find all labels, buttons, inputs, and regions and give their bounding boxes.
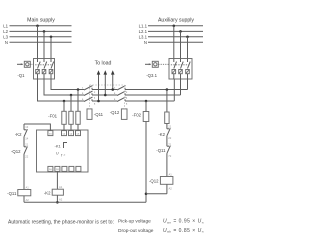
fuse F01 pole3 <box>76 111 80 124</box>
node L1 tap <box>36 25 39 28</box>
wire P3 middle segment <box>92 100 117 102</box>
contact K2 NC (right) <box>167 128 170 136</box>
wire down to coil Q11 <box>23 154 25 190</box>
contact Q12 NC (left) <box>24 146 27 154</box>
svg-text:A1: A1 <box>26 185 30 189</box>
monitor bottom terminal 1 <box>48 166 53 171</box>
svg-text:Drop-out voltage: Drop-out voltage <box>118 228 154 234</box>
rotary handle of Q3.1 <box>145 61 169 67</box>
wire F01-3 feeder <box>77 90 79 132</box>
svg-text:N: N <box>144 40 147 45</box>
svg-text:21: 21 <box>168 125 171 129</box>
circuit-breaker Q1 <box>34 59 55 80</box>
wire L3.1 drop to Q3.1 <box>187 37 189 59</box>
wire down to Q12 coil <box>166 153 168 176</box>
node L2 tap <box>43 30 46 33</box>
svg-text:-Q12: -Q12 <box>11 149 21 154</box>
svg-text:14: 14 <box>25 137 28 141</box>
contactor Q11 main contacts <box>84 86 93 102</box>
monitor top terminal 4 <box>76 131 81 136</box>
wire right branch upper <box>166 90 168 113</box>
wire Q11 coil to rail <box>23 196 25 203</box>
svg-text:To load: To load <box>95 61 112 67</box>
svg-text:-Q11: -Q11 <box>7 191 17 196</box>
svg-text:22: 22 <box>168 136 171 140</box>
svg-text:-F02: -F02 <box>132 113 141 118</box>
monitor bottom terminal 5 <box>76 166 81 171</box>
coil Q11 <box>18 190 31 196</box>
svg-text:Main supply: Main supply <box>27 18 55 24</box>
node L1.1 tap <box>173 25 176 28</box>
node L3.1 tap <box>186 36 189 39</box>
fuse F01 pole2 <box>69 111 73 124</box>
node L2.1 tap <box>179 30 182 33</box>
wire Q1 pole2 down-bend <box>44 79 84 95</box>
svg-text:-Q12: -Q12 <box>149 179 159 184</box>
load arrow 2 <box>104 70 108 95</box>
wire K2 coil to rail <box>56 195 58 202</box>
wire P1 middle segment <box>92 89 117 91</box>
wire fuse to contact <box>166 124 168 129</box>
svg-text:Automatic resetting, the phase: Automatic resetting, the phase-monitor i… <box>8 220 114 226</box>
phase-monitor K1 box <box>37 130 89 172</box>
node load1 on P3 <box>97 100 100 103</box>
interlock latch box Q11 <box>87 109 92 120</box>
svg-text:L2: L2 <box>3 29 8 34</box>
wire L2.1 (aux) <box>148 30 203 32</box>
wire L2 drop to Q1 <box>43 31 45 58</box>
wire P2 right segment <box>125 94 181 96</box>
wire bottom rail <box>24 201 146 203</box>
wire L1.1 drop to Q3.1 <box>173 26 175 59</box>
svg-text:21: 21 <box>25 143 28 147</box>
svg-text:L3: L3 <box>3 34 8 39</box>
svg-text:<: < <box>64 153 66 157</box>
wire Q3.1 pole3 bend-up <box>173 79 175 101</box>
terminal digits top row <box>49 133 80 135</box>
svg-text:72: 72 <box>168 154 171 158</box>
wire L2 (main) <box>10 30 72 32</box>
rotary handle of Q1 <box>17 61 34 67</box>
svg-text:13: 13 <box>25 125 28 129</box>
wire monitor output down <box>56 171 58 189</box>
contact K2 NC (left) <box>24 129 27 137</box>
load arrow 3 <box>111 70 115 89</box>
mechanical interlock dashed link <box>90 84 125 86</box>
svg-text:L3.1: L3.1 <box>139 34 148 39</box>
wire F01-2 feeder <box>70 95 72 131</box>
wire Q1 pole1 down-bend <box>51 79 84 90</box>
wire L3 drop to Q1 <box>50 37 52 59</box>
terminal digits bottom row <box>49 169 59 171</box>
coil K2 <box>52 189 63 195</box>
wire L3.1 (aux) <box>148 36 203 38</box>
svg-text:L2.1: L2.1 <box>139 29 148 34</box>
svg-text:L1.1: L1.1 <box>139 23 148 28</box>
monitor bottom terminal 2 <box>55 166 60 171</box>
svg-text:-K2: -K2 <box>158 132 165 137</box>
wire F02 feeder <box>145 101 147 112</box>
node load3 on P1 <box>111 88 114 91</box>
monitor function symbol <box>56 143 67 158</box>
svg-text:Uab = 0.85 × Un: Uab = 0.85 × Un <box>163 228 204 234</box>
monitor top terminal 1 <box>48 131 53 136</box>
contactor Q12 main contacts <box>117 86 126 102</box>
wire Q12 coil to return <box>166 184 168 194</box>
wire L1 drop to Q1 <box>37 26 39 59</box>
node K2 on rail <box>56 201 59 204</box>
load arrow 1 <box>97 70 101 101</box>
svg-text:-K2: -K2 <box>15 132 22 137</box>
wire left control branch upper <box>23 124 25 130</box>
pin numbers Q11 contacts <box>82 88 96 106</box>
svg-text:-Q12: -Q12 <box>110 110 120 115</box>
wire Q3.1 pole2 bend-up <box>180 79 182 95</box>
svg-text:Pick-up voltage: Pick-up voltage <box>118 219 151 225</box>
node return junction <box>145 193 148 196</box>
node right branch tap <box>166 88 169 91</box>
svg-text:A1: A1 <box>169 173 173 177</box>
wire F02 return line <box>145 122 147 203</box>
node load2 on P2 <box>104 94 107 97</box>
monitor top terminal 2 <box>62 131 67 136</box>
svg-text:U: U <box>56 152 59 156</box>
svg-text:A1: A1 <box>59 185 63 189</box>
wire Q3.1 pole1 bend-up <box>187 79 189 90</box>
wire P2 middle segment <box>92 94 117 96</box>
svg-text:-Q3.1: -Q3.1 <box>146 73 157 78</box>
wire P1 right segment <box>125 89 188 91</box>
wire L3 (main) <box>10 36 72 38</box>
svg-text:A2: A2 <box>26 198 30 202</box>
wire N (aux) <box>148 41 203 43</box>
svg-text:A2: A2 <box>59 197 63 201</box>
svg-text:N: N <box>5 40 8 45</box>
svg-text:-F01: -F01 <box>48 114 57 119</box>
node F01 tap 2 <box>70 94 73 97</box>
wire N (main) <box>10 41 72 43</box>
wire Q1 pole3 down-bend <box>38 79 85 101</box>
svg-text:-K2: -K2 <box>44 190 51 195</box>
fuse F2 right <box>165 112 169 124</box>
dashed link to latch Q11 <box>89 85 91 109</box>
wire F01-1 feeder <box>63 101 65 131</box>
coil Q12 <box>160 177 173 185</box>
wire P3 right segment <box>125 100 174 102</box>
svg-text:-Q1: -Q1 <box>17 73 25 78</box>
fuse F01 pole1 <box>62 111 66 124</box>
monitor top terminal 3 <box>69 131 74 136</box>
wire L2.1 drop to Q3.1 <box>180 31 182 58</box>
node L3 tap <box>50 36 53 39</box>
interlock latch box Q12 <box>121 109 127 120</box>
circuit-breaker Q3.1 <box>169 59 192 80</box>
svg-text:-Q11: -Q11 <box>94 112 104 117</box>
pin numbers Q12 contacts <box>114 88 128 106</box>
wire L1 (main) <box>10 25 72 27</box>
svg-text:-Q11: -Q11 <box>156 148 166 153</box>
svg-text:Auxiliary supply: Auxiliary supply <box>158 18 194 24</box>
node F01 tap 1 <box>63 100 66 103</box>
node F01 tap 3 <box>77 88 80 91</box>
svg-text:A2: A2 <box>169 186 173 190</box>
svg-text:L1: L1 <box>3 23 8 28</box>
wire between contacts right <box>166 136 168 146</box>
wire monitor supply from left branch <box>24 124 50 131</box>
node F02 tap <box>145 100 148 103</box>
svg-text:Uan = 0.95 × Un: Uan = 0.95 × Un <box>163 219 204 225</box>
wire return to Q12 coil <box>146 193 167 195</box>
monitor bottom terminal 3 <box>62 166 67 171</box>
dashed link to latch Q12 <box>124 85 126 109</box>
monitor bottom terminal 4 <box>69 166 74 171</box>
wire L1.1 (aux) <box>148 25 203 27</box>
contact Q11 NC (right) <box>167 146 170 154</box>
svg-text:-K1: -K1 <box>55 144 62 149</box>
svg-text:22: 22 <box>25 155 28 159</box>
fuse F02 <box>143 112 149 122</box>
wire between contacts left <box>23 137 25 147</box>
